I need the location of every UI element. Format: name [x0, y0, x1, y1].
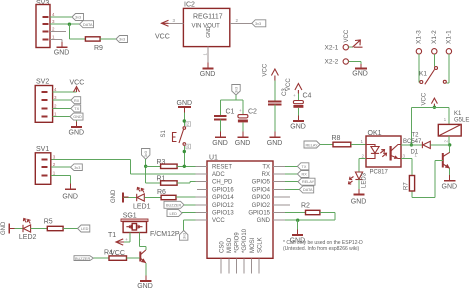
svg-text:K1: K1: [419, 71, 427, 78]
svg-text:VCC: VCC: [70, 80, 85, 87]
svg-text:RX: RX: [302, 173, 308, 177]
svg-text:GND: GND: [212, 140, 228, 147]
svg-text:R8: R8: [332, 135, 341, 142]
svg-text:RX: RX: [74, 99, 80, 103]
svg-text:CH_PD: CH_PD: [212, 180, 233, 186]
svg-text:R2: R2: [301, 203, 310, 210]
svg-text:LED: LED: [81, 227, 89, 231]
svg-text:3v3: 3v3: [74, 166, 80, 170]
svg-text:R7: R7: [404, 182, 410, 190]
svg-text:BC547: BC547: [403, 139, 422, 145]
svg-text:PC817: PC817: [370, 170, 389, 176]
svg-text:T1: T1: [108, 232, 116, 239]
svg-text:F/CM12P: F/CM12P: [150, 231, 180, 238]
svg-text:DATA: DATA: [83, 23, 93, 27]
svg-text:IC2: IC2: [184, 2, 195, 9]
svg-text:SV2: SV2: [36, 79, 49, 86]
svg-text:+: +: [293, 93, 296, 98]
svg-text:K1: K1: [454, 111, 462, 117]
svg-text:C2: C2: [248, 109, 257, 116]
svg-text:LED1: LED1: [133, 203, 151, 210]
svg-text:*GPIO9: *GPIO9: [235, 232, 241, 253]
svg-text:S1: S1: [161, 129, 167, 137]
svg-text:U1: U1: [209, 154, 218, 161]
svg-text:*GPIO10: *GPIO10: [242, 228, 248, 253]
svg-text:3v3: 3v3: [255, 22, 261, 26]
svg-text:VCC: VCC: [422, 92, 428, 105]
svg-text:GND: GND: [206, 26, 212, 38]
svg-text:3v3: 3v3: [183, 233, 187, 239]
svg-text:GPIO2: GPIO2: [252, 203, 271, 209]
svg-text:X1-1: X1-1: [446, 30, 453, 44]
svg-text:MOSI: MOSI: [250, 237, 256, 253]
svg-text:+: +: [239, 108, 242, 113]
svg-text:GND: GND: [235, 140, 251, 147]
svg-text:BUZZER: BUZZER: [75, 257, 90, 261]
svg-text:3v3: 3v3: [235, 87, 239, 93]
svg-text:(Untested. Info from esp8266 w: (Untested. Info from esp8266 wiki): [283, 246, 359, 252]
svg-text:X1-2: X1-2: [431, 30, 438, 44]
svg-text:R5: R5: [44, 219, 53, 226]
svg-text:C1: C1: [226, 109, 235, 116]
svg-text:MISO: MISO: [227, 237, 233, 253]
svg-text:SV3: SV3: [36, 0, 49, 7]
svg-text:X2-1: X2-1: [325, 44, 339, 51]
svg-text:X2-2: X2-2: [325, 59, 339, 66]
svg-text:GND: GND: [200, 71, 216, 78]
svg-text:ADC: ADC: [212, 172, 225, 178]
svg-text:RESET: RESET: [212, 164, 232, 170]
svg-text:TX: TX: [74, 107, 79, 111]
svg-text:RELAY: RELAY: [302, 180, 315, 184]
svg-text:LED3: LED3: [362, 172, 368, 188]
svg-text:GPIO16: GPIO16: [212, 187, 234, 193]
svg-text:GND: GND: [73, 115, 82, 119]
svg-text:GND: GND: [1, 221, 7, 235]
svg-text:GND: GND: [257, 218, 271, 224]
svg-text:3v3: 3v3: [144, 151, 148, 157]
svg-text:TX: TX: [302, 165, 307, 169]
svg-text:3v3: 3v3: [75, 16, 81, 20]
svg-text:DATA: DATA: [303, 188, 313, 192]
svg-text:GND: GND: [442, 183, 458, 190]
svg-text:SCLK: SCLK: [257, 237, 263, 253]
svg-text:VCC: VCC: [263, 63, 269, 76]
svg-text:3v3: 3v3: [119, 38, 125, 42]
svg-text:GND: GND: [352, 71, 368, 78]
svg-text:GND: GND: [54, 50, 70, 57]
svg-text:R9: R9: [94, 45, 103, 52]
svg-text:REG1117: REG1117: [193, 14, 223, 21]
svg-text:GND: GND: [290, 124, 306, 131]
svg-text:GPIO13: GPIO13: [212, 211, 234, 217]
svg-text:+: +: [125, 237, 128, 242]
svg-text:GPIO12: GPIO12: [212, 203, 234, 209]
svg-text:G5LE: G5LE: [454, 118, 469, 124]
svg-text:C4: C4: [303, 93, 312, 100]
svg-text:GND: GND: [137, 283, 153, 290]
svg-text:VCC: VCC: [155, 34, 170, 41]
svg-text:VCC: VCC: [212, 218, 225, 224]
svg-text:GND: GND: [177, 100, 193, 107]
svg-text:GND: GND: [267, 140, 283, 147]
svg-text:RX: RX: [262, 172, 270, 178]
svg-text:CS0: CS0: [219, 241, 225, 253]
svg-text:GPIO0: GPIO0: [252, 195, 271, 201]
svg-text:RELAY: RELAY: [306, 143, 319, 147]
svg-text:LED2: LED2: [19, 234, 37, 241]
svg-text:X1-3: X1-3: [416, 30, 423, 44]
svg-text:GPIO15: GPIO15: [248, 211, 270, 217]
svg-text:T2: T2: [412, 133, 420, 139]
svg-text:GPIO14: GPIO14: [212, 195, 234, 201]
svg-text:VCC: VCC: [286, 78, 292, 91]
svg-text:LED: LED: [170, 212, 178, 216]
svg-text:SV1: SV1: [36, 146, 49, 153]
svg-text:GND: GND: [111, 189, 117, 203]
svg-text:VCC: VCC: [344, 29, 350, 42]
svg-text:GPIO5: GPIO5: [252, 180, 271, 186]
svg-text:TX: TX: [262, 164, 270, 170]
svg-text:SG1: SG1: [123, 213, 137, 220]
svg-text:GND: GND: [351, 199, 367, 206]
svg-text:GND: GND: [69, 130, 85, 137]
svg-text:BUZZER: BUZZER: [166, 203, 181, 207]
svg-text:GPIO4: GPIO4: [252, 187, 271, 193]
svg-text:GND: GND: [62, 194, 78, 201]
